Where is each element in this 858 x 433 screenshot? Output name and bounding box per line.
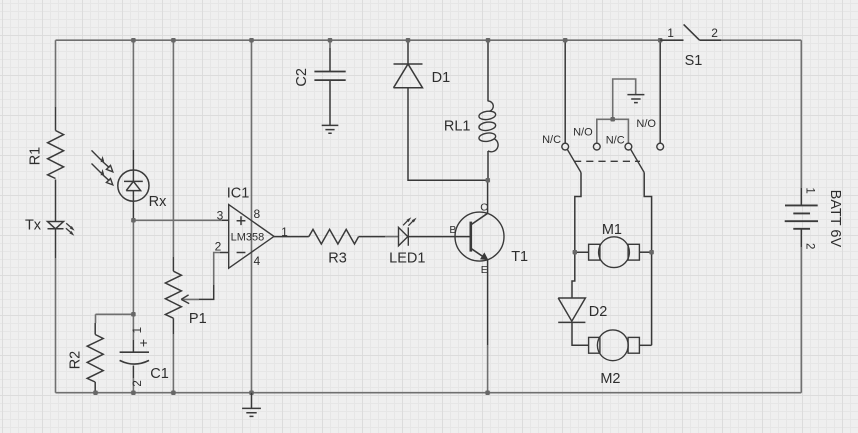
relay contact terminal N/C left (562, 143, 569, 150)
relay linkage dashed (574, 160, 640, 162)
svg-text:3: 3 (217, 209, 224, 223)
junction M1 right (649, 250, 654, 255)
svg-text:LED1: LED1 (389, 250, 425, 266)
junction top rail / RL1 (486, 38, 491, 43)
wire top rail to P1 (172, 40, 174, 257)
wire left pole to M1 (575, 173, 589, 253)
wire top rail to RL1 (487, 40, 489, 101)
motor M2 (589, 330, 640, 361)
junction node B D1/RL1/collector (486, 178, 491, 183)
wire bottom rail (56, 392, 802, 394)
svg-text:D1: D1 (432, 70, 451, 86)
wire top rail right of S1 (721, 39, 801, 41)
svg-text:E: E (481, 264, 488, 276)
wire right pole to M1/M2 (644, 173, 651, 346)
relay pole blade right (631, 149, 645, 172)
junction top rail / IC1 V+ (249, 38, 254, 43)
wire lead below R2 (94, 382, 96, 393)
wire top rail to relay contact N/O right (659, 40, 661, 143)
diode D2 (558, 298, 585, 322)
capacitor C1 (120, 352, 149, 364)
resistor R2 (87, 335, 103, 383)
junction M1 left (573, 250, 578, 255)
svg-text:1: 1 (667, 26, 674, 40)
wire Tx to bottom rail (55, 258, 57, 393)
junction bottom rail / emitter (485, 390, 490, 395)
wire P1 to bottom rail (172, 334, 174, 393)
wire D1 to RL1 node (408, 88, 488, 180)
svg-text:N/C: N/C (606, 135, 625, 147)
junction top rail / relay left (563, 38, 568, 43)
wire RL1 to node B (487, 151, 489, 180)
junction top rail / S1 (658, 38, 663, 43)
svg-text:C1: C1 (150, 366, 169, 382)
wire battery lead bottom (800, 229, 802, 247)
wire lead wiper to pin 2 (199, 253, 229, 300)
svg-text:2: 2 (215, 240, 222, 254)
wire top rail to D1 (407, 40, 409, 64)
wire R1 to Tx (55, 180, 57, 222)
svg-text:1: 1 (281, 225, 288, 239)
wire battery top (800, 40, 802, 188)
wire Rx node to op-amp pin 3 (133, 219, 222, 221)
wire top rail to Rx (132, 40, 134, 150)
wire D2 to M2 (572, 322, 589, 345)
wire T1 emitter lower to bottom rail (487, 345, 489, 393)
svg-text:8: 8 (253, 207, 260, 221)
wire C2 to ground (329, 80, 331, 125)
wire IC1 output to R3 (274, 236, 309, 238)
svg-text:N/O: N/O (573, 127, 593, 139)
svg-text:T1: T1 (511, 249, 528, 265)
svg-text:B: B (449, 224, 456, 236)
svg-text:D2: D2 (589, 304, 608, 320)
wire lead below Rx (132, 201, 134, 220)
relay contact terminal N/O right (657, 143, 664, 150)
potentiometer P1 (165, 271, 189, 318)
switch S1 (660, 24, 721, 40)
wire lead below P1 (172, 318, 174, 334)
relay contact terminal N/C mid (625, 143, 632, 150)
ground relay coil side (627, 95, 644, 103)
wire top rail to relay contact N/C left (564, 40, 566, 143)
motor M1 (589, 237, 640, 268)
wire lead above C1 (132, 340, 134, 352)
junction bottom rail / P1 (171, 390, 176, 395)
svg-text:M2: M2 (600, 371, 620, 387)
transistor Q1 (T1) (455, 212, 504, 261)
svg-text:2: 2 (804, 243, 816, 249)
svg-text:2: 2 (711, 26, 718, 40)
wire Rx to node A (132, 220, 134, 340)
light arrows into Rx (92, 150, 113, 185)
svg-text:R3: R3 (328, 250, 347, 266)
resistor R1 (48, 131, 64, 179)
ground under C2 (322, 125, 339, 133)
svg-text:S1: S1 (685, 53, 703, 69)
svg-text:P1: P1 (189, 311, 207, 327)
wire M1 node to D2 (572, 252, 575, 298)
wire M2 right terminal (640, 344, 652, 346)
junction top rail / D1 (406, 38, 411, 43)
wire left branch top (55, 40, 57, 107)
junction top rail / Rx (131, 38, 136, 43)
svg-text:2: 2 (132, 380, 144, 386)
wire node B to T1 collector (487, 180, 489, 213)
wire R3 lead right (359, 236, 385, 238)
svg-text:IC1: IC1 (227, 186, 250, 202)
svg-text:4: 4 (253, 254, 260, 268)
wire lead above Rx (132, 150, 134, 170)
svg-text:LM358: LM358 (231, 232, 265, 244)
junction node A Rx/pin3 (131, 218, 136, 223)
LED LED1 (399, 217, 417, 246)
inductor RL1 relay coil (478, 101, 498, 152)
wire lead C2 top (329, 48, 331, 72)
wire relay bracket to ground (597, 79, 636, 143)
op-amp U1 (IC1 LM358) (229, 205, 274, 269)
wire LED1 to T1 base (409, 236, 471, 238)
svg-text:BATT 6V: BATT 6V (827, 190, 843, 248)
wire battery bottom (800, 247, 802, 393)
resistor R3 (309, 229, 359, 244)
junction relay bracket (610, 117, 615, 122)
junction bottom rail / C1 (131, 390, 136, 395)
wire lead into pin 3 (222, 219, 229, 221)
wire T1 emitter upper (487, 260, 489, 345)
ground under IC1 rail (242, 393, 261, 417)
junction top rail / C2 (328, 38, 333, 43)
svg-text:C2: C2 (294, 68, 310, 87)
svg-text:N/O: N/O (636, 118, 656, 130)
wire lead above P1 (172, 257, 174, 271)
relay pole blade left (567, 149, 581, 172)
wire V+ rail through IC1 (251, 40, 253, 393)
wire top rail to C2 (329, 40, 331, 48)
junction bottom rail / ground (249, 390, 254, 395)
svg-text:1: 1 (804, 187, 816, 193)
svg-text:Rx: Rx (149, 194, 167, 210)
wire top rail (56, 39, 663, 41)
svg-text:N/C: N/C (542, 134, 561, 146)
svg-text:C: C (480, 201, 488, 213)
battery BATT 6V (785, 205, 818, 228)
svg-text:M1: M1 (602, 222, 622, 238)
svg-text:R2: R2 (67, 351, 83, 370)
svg-text:1: 1 (132, 327, 144, 333)
wire M1 right terminal (640, 251, 652, 253)
svg-text:+: + (140, 334, 148, 350)
wire lead above R1 (55, 107, 57, 131)
photodiode Rx (118, 170, 149, 201)
wire R3 to LED1 (385, 236, 399, 238)
wire C1 to bottom rail (132, 378, 134, 393)
wire P1 wiper to op-amp pin 2 (182, 253, 220, 300)
wire lead above R2 (94, 323, 96, 335)
capacitor C2 (314, 72, 345, 81)
relay contact terminal N/O mid (593, 143, 600, 150)
svg-text:R1: R1 (27, 147, 43, 166)
junction top rail / P1 (171, 38, 176, 43)
svg-text:Tx: Tx (25, 218, 42, 234)
junction node Rx/R2/C1 (131, 312, 136, 317)
diode D1 (394, 64, 423, 88)
wire R2 top to node A (96, 314, 134, 323)
wire lead below C1 (132, 366, 134, 379)
wire battery lead top (800, 188, 802, 205)
LED Tx (48, 222, 75, 236)
junction bottom rail / R2 (93, 390, 98, 395)
wire lead below Tx (55, 229, 57, 258)
svg-text:RL1: RL1 (444, 118, 471, 134)
